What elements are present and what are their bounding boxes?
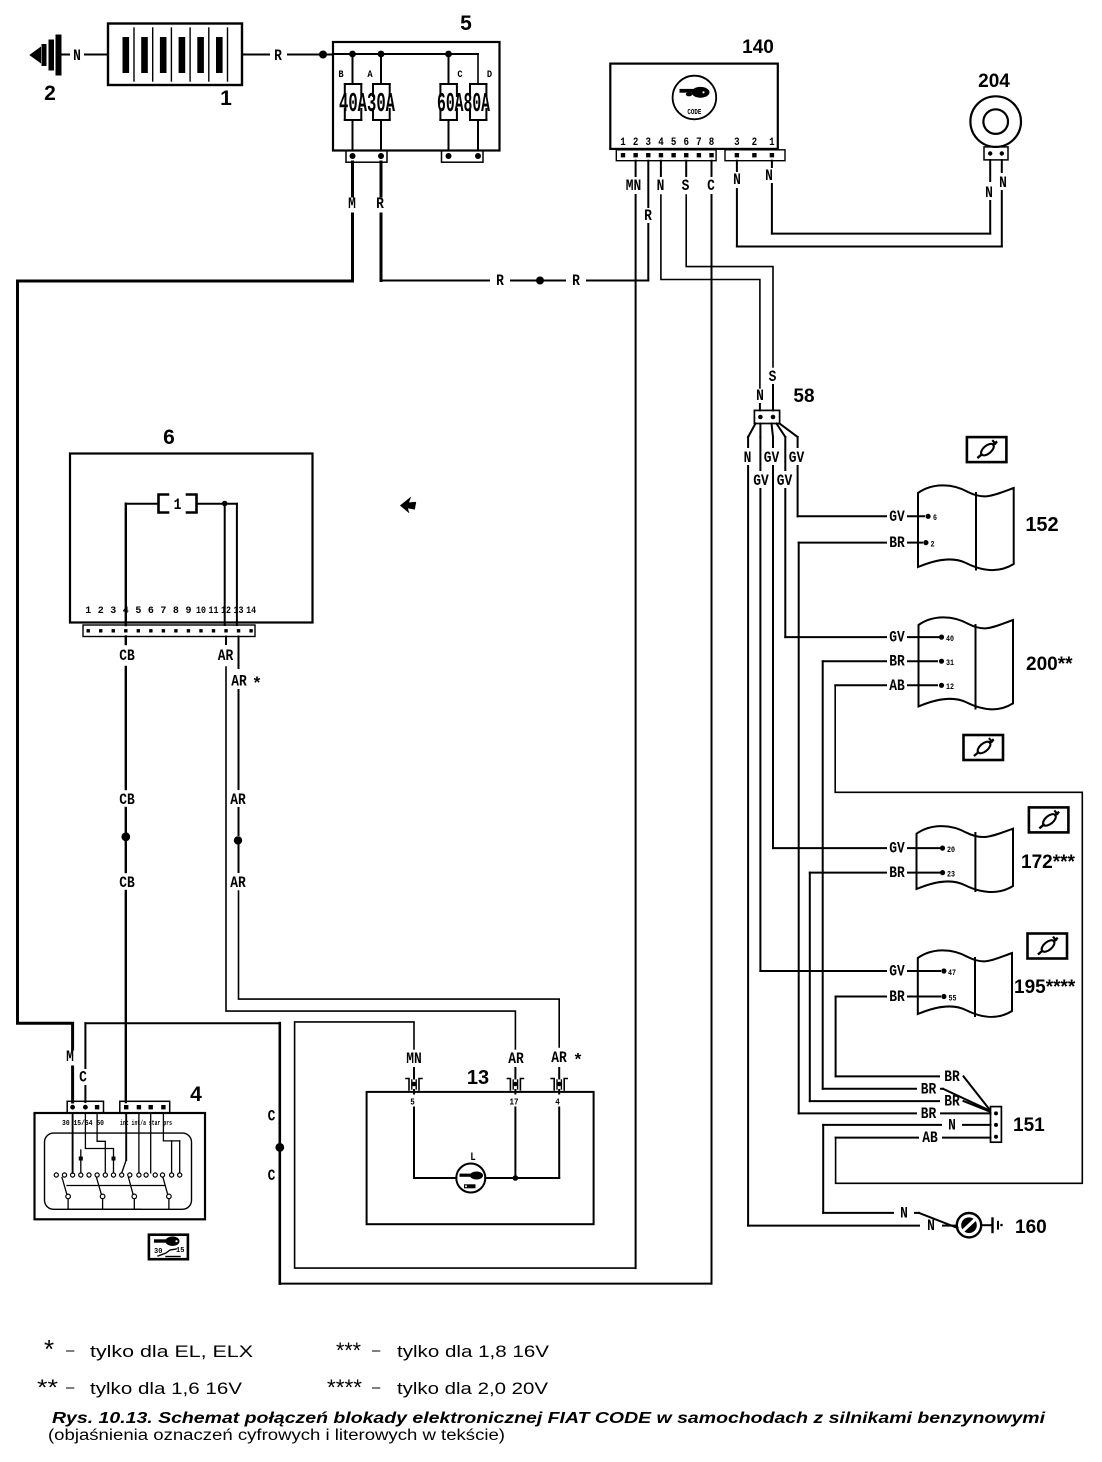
svg-text:tylko dla EL, ELX: tylko dla EL, ELX	[90, 1342, 253, 1361]
svg-text:8: 8	[709, 137, 715, 149]
connector 151	[991, 1107, 1046, 1143]
svg-text:N: N	[73, 47, 81, 65]
svg-text:23: 23	[947, 870, 955, 879]
svg-text:8: 8	[173, 605, 179, 617]
svg-text:11: 11	[209, 605, 219, 617]
svg-text:6: 6	[684, 137, 690, 149]
svg-text:AR: AR	[230, 791, 246, 809]
svg-text:58: 58	[793, 386, 814, 407]
wire AR* module6-to-13	[230, 637, 583, 1079]
module 195	[918, 950, 1076, 1017]
instrument panel 13	[367, 1067, 594, 1224]
key symbol box above 152	[967, 437, 1007, 462]
svg-text:R: R	[274, 47, 282, 65]
svg-text:AR: AR	[218, 647, 234, 665]
svg-text:–: –	[66, 1379, 75, 1396]
svg-text:****: ****	[327, 1375, 362, 1400]
body ground 160	[957, 1213, 1047, 1238]
CODE warning lamp L inside 13	[414, 1090, 559, 1193]
svg-text:4: 4	[555, 1098, 560, 1108]
instrument module 6	[70, 426, 313, 637]
svg-text:N: N	[948, 1117, 956, 1135]
wire AB 200-to-151	[835, 677, 1082, 1184]
svg-text:MN: MN	[406, 1050, 422, 1068]
wire GV 58-to-152	[798, 437, 938, 526]
wire M fuse-to-switch	[18, 162, 356, 1102]
svg-text:N: N	[985, 184, 993, 202]
svg-text:14: 14	[246, 605, 256, 617]
svg-text:GV: GV	[777, 472, 793, 490]
svg-text:tylko dla 1,6 16V: tylko dla 1,6 16V	[90, 1379, 243, 1398]
module 200	[919, 617, 1074, 709]
wire BR 172-to-151	[810, 864, 990, 1111]
svg-text:BR: BR	[944, 1093, 960, 1111]
svg-text:BR: BR	[889, 653, 905, 671]
svg-text:C: C	[79, 1069, 87, 1087]
key symbol box above 200	[964, 735, 1004, 760]
svg-text:*: *	[573, 1052, 583, 1071]
svg-text:AB: AB	[889, 677, 905, 695]
svg-text:40A30A: 40A30A	[339, 90, 395, 120]
svg-text:7: 7	[160, 605, 166, 617]
wire BR 200-to-151	[823, 653, 990, 1111]
svg-text:47: 47	[948, 969, 956, 978]
svg-text:151: 151	[1013, 1115, 1045, 1136]
svg-text:3: 3	[110, 605, 116, 617]
svg-text:C: C	[268, 1167, 276, 1185]
svg-text:6: 6	[163, 426, 175, 449]
wire N 140pin4-to-58	[657, 161, 764, 411]
fuse values 60A 80A	[437, 90, 490, 120]
svg-text:CB: CB	[119, 647, 135, 665]
svg-text:172***: 172***	[1021, 852, 1075, 873]
svg-text:N: N	[765, 167, 773, 185]
connector 58	[754, 386, 814, 424]
svg-text:**: **	[37, 1375, 59, 1400]
svg-text:AR: AR	[508, 1050, 524, 1068]
svg-text:BR: BR	[889, 988, 905, 1006]
svg-text:BR: BR	[921, 1080, 937, 1098]
svg-text:3: 3	[646, 137, 652, 149]
svg-text:*: *	[44, 1334, 54, 1364]
pointer mark	[402, 500, 416, 511]
svg-text:N: N	[756, 387, 764, 405]
svg-text:R: R	[572, 272, 580, 290]
fuse B 40A	[338, 54, 361, 150]
svg-text:M: M	[66, 1048, 74, 1066]
fuse box output connectors	[346, 150, 483, 162]
svg-text:5: 5	[410, 1098, 415, 1108]
svg-text:M: M	[348, 195, 356, 213]
svg-text:N: N	[657, 177, 665, 195]
svg-text:1: 1	[174, 496, 182, 514]
svg-text:1: 1	[85, 605, 91, 617]
svg-text:6: 6	[148, 605, 154, 617]
svg-text:30 15/54 50: 30 15/54 50	[62, 1120, 104, 1128]
wire R fuse-to-140	[376, 161, 652, 290]
svg-text:–: –	[372, 1342, 381, 1359]
wire GV 58-to-200	[785, 437, 954, 647]
svg-text:BR: BR	[889, 534, 905, 552]
svg-text:AR: AR	[230, 874, 246, 892]
svg-text:2: 2	[752, 137, 758, 149]
svg-text:CB: CB	[119, 791, 135, 809]
ignition switch 4	[35, 1083, 206, 1219]
svg-text:200**: 200**	[1026, 654, 1073, 675]
svg-text:Rys. 10.13. Schemat połączeń b: Rys. 10.13. Schemat połączeń blokady ele…	[52, 1410, 1046, 1427]
svg-text:7: 7	[696, 137, 702, 149]
svg-text:tylko dla 2,0 20V: tylko dla 2,0 20V	[397, 1379, 549, 1398]
58 fan-out wires	[744, 424, 805, 491]
wire N 140right-pin3-to-204	[733, 160, 1007, 247]
svg-text:204: 204	[978, 71, 1010, 92]
svg-text:int int/a star prs: int int/a star prs	[120, 1120, 172, 1128]
wire C 140pin8-down	[707, 161, 715, 1284]
legend line 1	[44, 1334, 550, 1364]
legend line 2	[37, 1375, 549, 1400]
svg-text:N: N	[733, 171, 741, 189]
Fiat CODE control unit 140	[610, 37, 785, 161]
svg-text:N: N	[999, 174, 1007, 192]
svg-text:5: 5	[671, 137, 677, 149]
svg-text:CODE: CODE	[687, 109, 701, 117]
svg-text:31: 31	[946, 659, 954, 668]
svg-text:tylko dla 1,8 16V: tylko dla 1,8 16V	[397, 1342, 550, 1361]
fuse values 40A 30A	[339, 90, 395, 120]
svg-text:40: 40	[946, 635, 954, 644]
svg-text:13: 13	[467, 1067, 489, 1089]
svg-text:C: C	[268, 1108, 276, 1126]
svg-text:2: 2	[931, 540, 935, 549]
svg-text:1: 1	[769, 137, 775, 149]
svg-text:N: N	[744, 449, 752, 467]
svg-text:10: 10	[196, 605, 206, 617]
svg-text:20: 20	[947, 846, 955, 855]
wire AR module6-to-13	[218, 637, 525, 1079]
svg-text:BR: BR	[944, 1068, 960, 1086]
svg-text:160: 160	[1015, 1217, 1047, 1238]
svg-text:R: R	[496, 272, 504, 290]
wire N 151-to-160	[823, 1117, 990, 1229]
svg-text:***: ***	[336, 1338, 361, 1363]
warning lamp 1 inside module 6	[126, 495, 237, 626]
wire R battery-to-fusebox	[242, 47, 333, 65]
module 152	[918, 485, 1059, 570]
svg-text:9: 9	[185, 605, 191, 617]
battery 1	[108, 24, 242, 111]
fuse box 5	[333, 12, 500, 151]
svg-text:–: –	[372, 1379, 381, 1396]
svg-text:140: 140	[742, 37, 774, 58]
svg-text:GV: GV	[889, 629, 905, 647]
svg-text:B: B	[338, 69, 344, 81]
svg-text:GV: GV	[753, 472, 769, 490]
svg-text:12: 12	[221, 605, 231, 617]
wire BR 152-to-151	[799, 534, 991, 1123]
svg-text:R: R	[644, 207, 652, 225]
svg-text:A: A	[367, 69, 373, 81]
svg-text:GV: GV	[889, 508, 905, 526]
svg-text:GV: GV	[789, 449, 805, 467]
svg-text:N: N	[900, 1204, 908, 1222]
caption	[48, 1410, 1046, 1444]
svg-text:GV: GV	[889, 963, 905, 981]
svg-text:3: 3	[734, 137, 740, 149]
svg-text:AR: AR	[231, 673, 247, 691]
svg-text:1: 1	[620, 137, 626, 149]
svg-text:BR: BR	[921, 1105, 937, 1123]
svg-text:AR: AR	[551, 1049, 567, 1067]
svg-text:13: 13	[234, 605, 244, 617]
wire MN 140pin2-to-13	[295, 161, 642, 1268]
svg-text:2: 2	[98, 605, 104, 617]
wire N 58-to-160	[748, 437, 956, 1235]
svg-text:R: R	[376, 195, 384, 213]
wire N ground-to-battery	[62, 47, 108, 65]
svg-text:GV: GV	[889, 840, 905, 858]
svg-text:55: 55	[949, 994, 957, 1003]
fuse D 80A	[454, 54, 492, 150]
wire N 140right-pin1-to-204	[765, 160, 993, 234]
fuse A 30A	[367, 54, 389, 150]
svg-text:–: –	[66, 1342, 75, 1359]
svg-text:4: 4	[190, 1083, 202, 1106]
svg-text:BR: BR	[889, 864, 905, 882]
svg-text:152: 152	[1025, 514, 1058, 536]
key symbol box above 195	[1028, 934, 1068, 959]
wire BR 195-to-151	[836, 988, 990, 1110]
svg-text:15: 15	[176, 1247, 184, 1255]
svg-text:MN: MN	[626, 177, 642, 195]
key symbol box above 172	[1029, 807, 1069, 832]
fuse C 60A	[440, 54, 463, 150]
svg-text:D: D	[487, 69, 492, 81]
svg-text:195****: 195****	[1014, 977, 1076, 998]
svg-text:C: C	[707, 177, 715, 195]
svg-text:12: 12	[946, 683, 954, 692]
svg-text:4: 4	[658, 137, 664, 149]
svg-text:5: 5	[460, 12, 472, 35]
svg-text:1: 1	[220, 87, 232, 110]
svg-text:60A80A: 60A80A	[437, 90, 490, 120]
wire C 140pin8-to-switch4	[79, 1023, 711, 1283]
svg-text:L: L	[470, 1152, 476, 1164]
svg-text:C: C	[457, 69, 463, 81]
wire CB module6-to-switch4	[119, 637, 135, 1103]
svg-text:5: 5	[135, 605, 141, 617]
svg-text:CB: CB	[119, 874, 135, 892]
svg-text:GV: GV	[764, 449, 780, 467]
svg-text:2: 2	[633, 137, 639, 149]
svg-text:2: 2	[44, 82, 56, 105]
svg-text:17: 17	[510, 1098, 519, 1108]
immobilizer aerial 204	[970, 71, 1021, 160]
svg-text:S: S	[769, 368, 777, 386]
module 172	[917, 826, 1076, 892]
wire S 140pin6-to-58	[682, 161, 777, 411]
ground symbol 2	[31, 35, 62, 106]
svg-text:6: 6	[933, 514, 937, 523]
svg-text:AB: AB	[922, 1129, 938, 1147]
svg-text:S: S	[682, 177, 690, 195]
svg-text:(objaśnienia oznaczeń cyfrowyc: (objaśnienia oznaczeń cyfrowych i litero…	[48, 1427, 505, 1444]
key positions symbol below switch 4	[149, 1235, 188, 1260]
svg-text:*: *	[252, 676, 262, 695]
wire GV 58-to-195	[760, 437, 956, 981]
wire GV 58-to-172	[773, 437, 955, 858]
